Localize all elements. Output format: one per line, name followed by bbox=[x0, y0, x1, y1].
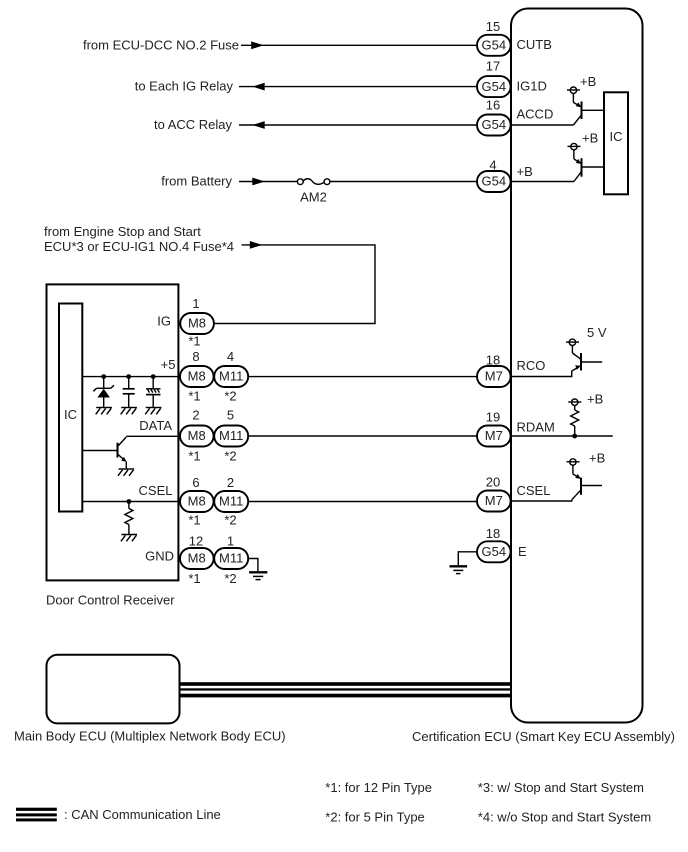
connector M7 pin 19 (RDAM) bbox=[477, 426, 511, 447]
wire CSEL (IC to M8) bbox=[82, 501, 180, 503]
connector M7 pin 20 (CSEL) bbox=[477, 491, 511, 512]
connector M7 pin 18 (RCO) bbox=[477, 366, 511, 387]
wire CSEL row to CSEL (M7) bbox=[248, 501, 477, 503]
svg-text:*1: *1 bbox=[188, 389, 200, 404]
svg-text:M8: M8 bbox=[188, 369, 206, 384]
svg-text:RCO: RCO bbox=[517, 358, 546, 373]
svg-text:Certification ECU (Smart Key E: Certification ECU (Smart Key ECU Assembl… bbox=[412, 729, 675, 744]
svg-text:+B: +B bbox=[589, 451, 605, 466]
arrow left (IG1D row) bbox=[252, 83, 264, 91]
junction node (zener) bbox=[101, 374, 106, 379]
fuse AM2 bbox=[297, 179, 330, 205]
svg-text:1: 1 bbox=[227, 533, 234, 548]
wire CSEL to transistor bbox=[511, 500, 572, 501]
svg-text:18: 18 bbox=[486, 526, 500, 541]
svg-text:Door Control Receiver: Door Control Receiver bbox=[46, 593, 175, 608]
svg-text:20: 20 bbox=[486, 475, 500, 490]
svg-text:15: 15 bbox=[486, 19, 500, 34]
svg-text:GND: GND bbox=[145, 549, 174, 564]
svg-text:4: 4 bbox=[227, 349, 234, 364]
svg-text:DATA: DATA bbox=[139, 418, 172, 433]
wire E to earth bbox=[458, 552, 477, 566]
connector G54 pin 16 bbox=[477, 115, 511, 136]
chassis ground (Q3 emitter) bbox=[118, 469, 134, 476]
wire RCO to transistor bbox=[511, 371, 572, 377]
svg-text:from Battery: from Battery bbox=[161, 174, 232, 189]
wire RDAM interior bbox=[511, 435, 613, 437]
connector M8 pin 2 bbox=[180, 426, 214, 447]
earth ground (GND row) bbox=[249, 572, 267, 579]
IC U1 (Door Control Receiver) bbox=[59, 304, 82, 512]
zener diode D1 bbox=[93, 377, 114, 408]
junction node (capacitor) bbox=[126, 374, 131, 379]
wire CUTB row bbox=[241, 44, 477, 46]
junction node (CSEL resistor) bbox=[126, 499, 131, 504]
transistor Q1 (ACCD output, PNP) bbox=[567, 87, 604, 125]
wire +B to transistor bbox=[511, 181, 574, 183]
wire +5 row to RCO bbox=[248, 376, 477, 378]
wire ACCD to transistor bbox=[511, 124, 574, 126]
svg-text:*2: *2 bbox=[224, 448, 236, 463]
connector G54 pin 17 bbox=[477, 76, 511, 97]
svg-text:12: 12 bbox=[189, 533, 203, 548]
svg-text:2: 2 bbox=[227, 475, 234, 490]
earth ground (E) bbox=[450, 566, 468, 573]
wire ACCD row bbox=[239, 124, 477, 126]
svg-text:G54: G54 bbox=[482, 117, 507, 132]
svg-text:IC: IC bbox=[64, 407, 77, 422]
resistor R2 (RDAM pull-up) bbox=[568, 399, 581, 436]
svg-text:Main Body ECU (Multiplex Netwo: Main Body ECU (Multiplex Network Body EC… bbox=[14, 729, 286, 744]
chassis ground (R1) bbox=[121, 535, 137, 542]
svg-text:IG: IG bbox=[157, 314, 171, 329]
svg-text:M11: M11 bbox=[219, 494, 243, 509]
connector G54 pin 4 bbox=[477, 171, 511, 192]
svg-text:18: 18 bbox=[486, 352, 500, 367]
wire DATA row to RDAM bbox=[248, 435, 477, 437]
wire IG feed (horizontal top, riser, into M8) bbox=[214, 245, 375, 324]
svg-text:6: 6 bbox=[192, 475, 199, 490]
svg-text:E: E bbox=[518, 544, 527, 559]
svg-text:*2: *2 bbox=[224, 571, 236, 586]
wire from Battery to fuse bbox=[239, 181, 298, 183]
svg-text:M7: M7 bbox=[485, 428, 503, 443]
svg-text:CSEL: CSEL bbox=[517, 483, 551, 498]
connector M8 pin 12 bbox=[180, 548, 214, 569]
svg-text:+B: +B bbox=[580, 74, 596, 89]
resistor R1 (CSEL pull-down) bbox=[125, 502, 133, 535]
svg-text:from Engine Stop and Start: from Engine Stop and Start bbox=[44, 224, 201, 239]
connector M8 pin 8 bbox=[180, 366, 214, 387]
connector M8 pin 6 bbox=[180, 491, 214, 512]
svg-text:*2: *2 bbox=[224, 389, 236, 404]
capacitor C1 bbox=[123, 377, 135, 408]
arrow right (CUTB row) bbox=[251, 41, 263, 49]
svg-text:to Each IG Relay: to Each IG Relay bbox=[135, 79, 234, 94]
svg-text:ACCD: ACCD bbox=[517, 107, 554, 122]
svg-text:*4: w/o Stop and Start System: *4: w/o Stop and Start System bbox=[478, 810, 651, 825]
svg-text:+B: +B bbox=[587, 392, 603, 407]
connector M11 pin 2 bbox=[214, 491, 248, 512]
svg-text:RDAM: RDAM bbox=[517, 420, 555, 435]
chassis ground (C2) bbox=[145, 408, 161, 415]
svg-text:*1: *1 bbox=[188, 571, 200, 586]
svg-text:CUTB: CUTB bbox=[517, 37, 552, 52]
connector M11 pin 4 bbox=[214, 366, 248, 387]
wire IG1D row bbox=[239, 86, 477, 88]
svg-text:M8: M8 bbox=[188, 494, 206, 509]
svg-text:from ECU-DCC NO.2 Fuse: from ECU-DCC NO.2 Fuse bbox=[83, 37, 239, 52]
svg-text:+5: +5 bbox=[161, 357, 176, 372]
arrow right (IG feed) bbox=[250, 241, 262, 249]
legend: CAN communication line symbol bbox=[16, 808, 57, 822]
svg-text:1: 1 bbox=[192, 296, 199, 311]
Main Body ECU box bbox=[47, 655, 180, 724]
svg-text:M11: M11 bbox=[219, 369, 243, 384]
svg-text:AM2: AM2 bbox=[300, 190, 327, 205]
svg-text:M7: M7 bbox=[485, 369, 503, 384]
connector M11 pin 5 bbox=[214, 426, 248, 447]
wire fuse to G54 bbox=[329, 181, 477, 183]
svg-text:*2: *2 bbox=[224, 513, 236, 528]
svg-text:G54: G54 bbox=[482, 174, 507, 189]
svg-text:M7: M7 bbox=[485, 493, 503, 508]
svg-text:IC: IC bbox=[610, 129, 623, 144]
IC U2 (Certification ECU) bbox=[604, 92, 628, 194]
+5 rail wire bbox=[82, 376, 180, 378]
transistor Q2 (+B, PNP) bbox=[568, 143, 605, 181]
svg-text:CSEL: CSEL bbox=[139, 483, 173, 498]
arrow left (ACCD row) bbox=[252, 121, 264, 129]
svg-text:IG1D: IG1D bbox=[517, 79, 547, 94]
svg-text:M11: M11 bbox=[219, 551, 243, 566]
CAN communication line (bus between Main Body ECU and Certification ECU) bbox=[179, 682, 512, 697]
Certification ECU box bbox=[511, 9, 643, 723]
svg-text:*2: for 5 Pin Type: *2: for 5 Pin Type bbox=[325, 810, 425, 825]
connector G54 pin 15 bbox=[477, 35, 511, 56]
svg-text:*3: w/ Stop and Start System: *3: w/ Stop and Start System bbox=[478, 780, 644, 795]
transistor Q5 (CSEL, PNP) bbox=[567, 459, 603, 500]
svg-text:to ACC Relay: to ACC Relay bbox=[154, 117, 233, 132]
svg-text:+B: +B bbox=[517, 164, 533, 179]
transistor Q4 (RCO, PNP) bbox=[566, 339, 602, 371]
svg-text:16: 16 bbox=[486, 98, 500, 113]
svg-text:5: 5 bbox=[227, 408, 234, 423]
connector G54 pin 18 (E) bbox=[477, 541, 511, 562]
svg-text:M8: M8 bbox=[188, 428, 206, 443]
svg-text:G54: G54 bbox=[482, 38, 507, 53]
chassis ground (zener) bbox=[96, 408, 112, 415]
feed-through capacitor C2 bbox=[146, 377, 161, 408]
svg-text:4: 4 bbox=[489, 158, 496, 173]
svg-text:19: 19 bbox=[486, 410, 500, 425]
Door Control Receiver box bbox=[47, 284, 179, 580]
svg-text:G54: G54 bbox=[482, 544, 507, 559]
svg-text:G54: G54 bbox=[482, 79, 507, 94]
svg-text:ECU*3 or ECU-IG1 NO.4 Fuse*4: ECU*3 or ECU-IG1 NO.4 Fuse*4 bbox=[44, 239, 234, 254]
connector M11 pin 1 bbox=[214, 548, 248, 569]
svg-text:M8: M8 bbox=[188, 551, 206, 566]
svg-text:8: 8 bbox=[192, 349, 199, 364]
wire GND to earth bbox=[248, 559, 258, 572]
svg-text:+B: +B bbox=[582, 131, 598, 146]
junction node (RDAM pull-up) bbox=[572, 434, 577, 439]
chassis ground (C1) bbox=[121, 408, 137, 415]
svg-text:*1: *1 bbox=[188, 513, 200, 528]
svg-text:: CAN Communication Line: : CAN Communication Line bbox=[64, 807, 221, 822]
arrow right (Battery row) bbox=[252, 178, 264, 186]
svg-text:*1: *1 bbox=[188, 334, 200, 349]
wire DATA (collector to M8) bbox=[126, 435, 180, 437]
junction node (filter cap) bbox=[151, 374, 156, 379]
svg-text:17: 17 bbox=[486, 59, 500, 74]
transistor Q3 (DATA, NPN) bbox=[82, 437, 126, 469]
connector M8 pin 1 bbox=[180, 313, 214, 334]
svg-text:M8: M8 bbox=[188, 316, 206, 331]
svg-text:*1: for 12 Pin Type: *1: for 12 Pin Type bbox=[325, 780, 432, 795]
svg-text:*1: *1 bbox=[188, 448, 200, 463]
svg-text:5 V: 5 V bbox=[587, 325, 607, 340]
svg-text:M11: M11 bbox=[219, 428, 243, 443]
svg-text:2: 2 bbox=[192, 408, 199, 423]
